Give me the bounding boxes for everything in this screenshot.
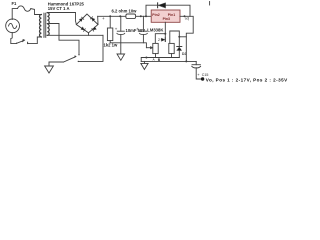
- pot labels: [153, 57, 161, 62]
- pot P1: [153, 43, 158, 53]
- wire switch common to ground: [49, 62, 64, 66]
- wire node to output line: [179, 36, 186, 38]
- pot P2: [169, 43, 174, 53]
- polarity mark C1 +: [115, 27, 118, 32]
- small diode D3 to adj: [161, 39, 165, 41]
- node dot output: [184, 15, 186, 17]
- node dot C2: [140, 15, 142, 17]
- ground center: [141, 63, 148, 69]
- resistor R1: [126, 14, 136, 19]
- label Vo output ranges: [206, 77, 288, 82]
- diode D2: [178, 37, 180, 47]
- transformer T1 primary: [40, 15, 42, 37]
- ground left: [45, 66, 54, 73]
- main positive rail: [98, 15, 152, 17]
- svg-text:15V CT 1 A: 15V CT 1 A: [48, 6, 70, 11]
- bridge diode 3: [81, 27, 85, 31]
- wire bridge + to rail: [97, 16, 99, 24]
- output wire from U1: [180, 16, 193, 61]
- svg-text:2: 2: [158, 38, 160, 42]
- fuse F1 label: [12, 1, 18, 6]
- wire secondary center tap: [47, 24, 79, 55]
- bridge plus sign: [102, 16, 105, 21]
- ground C1: [117, 54, 125, 60]
- svg-text:+: +: [136, 27, 139, 32]
- switch S1: [16, 43, 17, 44]
- adj pin wire: [164, 22, 166, 41]
- wire fuse to transformer primary top: [31, 9, 41, 15]
- range switch S2 contact B: [78, 61, 79, 62]
- value label 6.2 ohm 10w: [112, 8, 138, 13]
- output terminal Vo: [201, 77, 204, 80]
- svg-text:Pin3: Pin3: [163, 17, 170, 21]
- capacitor C1: [120, 16, 122, 31]
- pot bottom rail: [141, 58, 179, 62]
- node rail adj lower: [110, 43, 146, 48]
- AC source V1: [6, 19, 20, 33]
- range switch S2 contact A: [78, 54, 79, 55]
- value label LM338K: [147, 27, 163, 32]
- node dot D2: [185, 60, 187, 62]
- pin labels U1 Pin2 Pin1 Pin3: [152, 13, 175, 21]
- wire switch to primary bottom: [28, 37, 41, 44]
- svg-text:Vo, Pos 1 : 2-17V, Pos 2 : 2-3: Vo, Pos 1 : 2-17V, Pos 2 : 2-35V: [206, 77, 288, 82]
- regulator U1: [151, 10, 180, 22]
- bridge rectifier BR1: [76, 14, 98, 33]
- node dot R2: [109, 15, 111, 17]
- bridge diode 4: [92, 27, 96, 31]
- diode D1: [157, 3, 159, 8]
- value label 1k2 1w: [104, 43, 118, 48]
- svg-text:adj: adj: [185, 17, 190, 21]
- range switch S2 blade: [64, 57, 76, 62]
- wire bridge negative down: [79, 35, 103, 61]
- capacitor C2: [142, 16, 144, 31]
- node dot C1: [119, 15, 121, 17]
- wire secondary top to bridge: [47, 13, 76, 25]
- pot P1 top wire: [155, 34, 165, 44]
- svg-text:+: +: [197, 72, 200, 77]
- bridge bottom stem: [88, 33, 90, 36]
- stray mark top right: [209, 2, 211, 6]
- label 2: [158, 38, 160, 42]
- protection diode D1 loop: [146, 5, 190, 16]
- svg-text:D2: D2: [182, 52, 186, 56]
- value label 10mF 50V: [126, 28, 146, 33]
- capacitor C15: [195, 61, 197, 64]
- transformer core: [44, 13, 46, 38]
- pot P2 top wire: [170, 31, 180, 43]
- transformer label: [48, 2, 85, 11]
- svg-text:LM338K: LM338K: [147, 27, 163, 32]
- svg-text:A: A: [153, 57, 156, 61]
- bridge diode 1: [79, 17, 83, 21]
- node dot pot rail: [145, 57, 147, 59]
- resistor R2: [109, 16, 111, 28]
- wire AC source bottom: [11, 32, 16, 43]
- label D2: [182, 52, 186, 56]
- svg-text:Pin2: Pin2: [152, 13, 159, 17]
- node dot D1 loop: [145, 15, 147, 17]
- fuse F1: [18, 6, 31, 11]
- bridge diode 2: [90, 17, 94, 21]
- svg-text:6.2 ohm 10w: 6.2 ohm 10w: [112, 8, 138, 13]
- wire secondary bottom: [47, 34, 103, 36]
- label adj: [185, 17, 190, 21]
- svg-text:1k2 1w: 1k2 1w: [104, 43, 118, 48]
- transformer T1 secondary: [47, 13, 49, 36]
- polarity mark C2 +: [136, 27, 139, 32]
- svg-text:F1: F1: [12, 1, 18, 6]
- value label C15: [197, 72, 208, 77]
- node dot P2/D2: [178, 36, 180, 38]
- wire from AC source top to fuse: [12, 9, 17, 20]
- wiper arrow into pot P1: [146, 47, 150, 49]
- node dot adj: [164, 33, 166, 35]
- ground rail: [141, 60, 196, 62]
- svg-text:+: +: [115, 27, 118, 32]
